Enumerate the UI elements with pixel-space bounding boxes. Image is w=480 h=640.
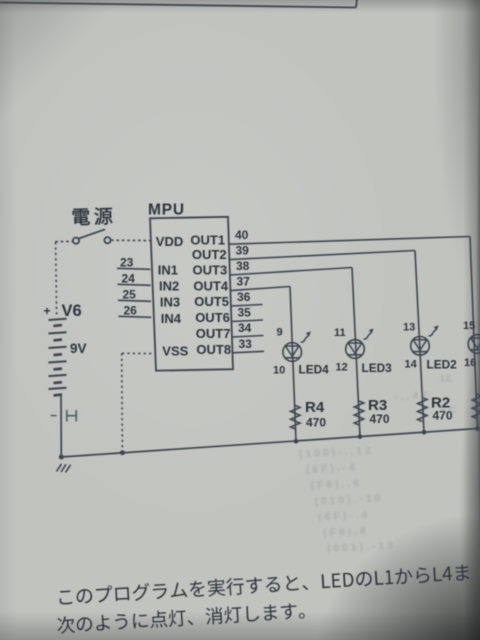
wire column LED1 <box>470 237 478 429</box>
wire pin 38 <box>230 268 352 276</box>
svg-text:LED2: LED2 <box>427 357 458 371</box>
svg-text:12: 12 <box>439 372 451 385</box>
LED LED1 <box>468 335 480 354</box>
wire pin 26 <box>119 316 152 317</box>
wire pin 37 <box>231 287 291 291</box>
label 電源 (power) <box>72 207 112 225</box>
svg-text:( F 6 ) . 6: ( F 6 ) . 6 <box>323 525 366 539</box>
svg-text:OUT7: OUT7 <box>196 326 231 341</box>
svg-text:36: 36 <box>237 290 251 304</box>
LED LED4 <box>283 343 302 362</box>
svg-text:37: 37 <box>237 274 251 288</box>
svg-text:( 6 F ) . - 4: ( 6 F ) . - 4 <box>306 461 356 476</box>
wire column LED4 <box>290 287 296 442</box>
svg-text:LED3: LED3 <box>362 361 393 375</box>
wire pin 24 <box>118 284 151 285</box>
ground bus wire <box>61 429 478 458</box>
svg-text:13: 13 <box>403 322 415 334</box>
svg-text:IN2: IN2 <box>159 278 179 293</box>
svg-text:−: − <box>50 409 57 423</box>
wire dashed battery+ to switch <box>55 240 72 242</box>
wire pin 35 <box>232 320 264 322</box>
svg-text:OUT1: OUT1 <box>190 232 225 247</box>
svg-text:VDD: VDD <box>156 234 183 249</box>
svg-text:26: 26 <box>124 303 138 317</box>
LED LED3 <box>346 340 365 359</box>
wire pin 36 <box>231 305 263 307</box>
negative terminal mark <box>66 410 68 422</box>
battery V6 cells <box>49 319 67 320</box>
wire dashed VSS to ground <box>122 352 156 354</box>
caption line 1 <box>59 563 470 605</box>
svg-text:V6: V6 <box>62 302 82 320</box>
svg-text:25: 25 <box>123 287 137 301</box>
junction dot <box>294 439 299 444</box>
svg-text:OUT5: OUT5 <box>194 294 229 309</box>
svg-text:( F 6 ) . . 6: ( F 6 ) . . 6 <box>310 477 359 492</box>
svg-text:LED4: LED4 <box>299 363 330 377</box>
svg-text:10: 10 <box>273 364 285 376</box>
wire pin 34 <box>232 336 264 338</box>
svg-text:35: 35 <box>238 305 252 319</box>
svg-text:4 C: 4 C <box>440 404 457 417</box>
switch S1 <box>73 238 79 244</box>
svg-text:470: 470 <box>370 412 390 426</box>
svg-text:( 1 0 0 ) - . . 1 2: ( 1 0 0 ) - . . 1 2 <box>299 445 371 461</box>
wire pin 25 <box>118 300 151 301</box>
svg-text:15: 15 <box>463 320 475 332</box>
svg-text:33: 33 <box>239 337 253 351</box>
junction dot <box>358 434 363 439</box>
junction battery/ground bus <box>59 455 64 460</box>
svg-text:OUT3: OUT3 <box>193 263 228 278</box>
svg-text:11: 11 <box>334 327 346 339</box>
svg-text:VSS: VSS <box>162 344 188 359</box>
svg-text:470: 470 <box>306 415 326 429</box>
page show-through (decorative) <box>295 372 464 556</box>
svg-text:MPU: MPU <box>148 202 185 219</box>
svg-text:12: 12 <box>336 361 348 373</box>
svg-text:+: + <box>44 304 51 318</box>
svg-text:IN4: IN4 <box>161 311 182 326</box>
resistor R3 <box>354 401 363 425</box>
svg-text:IN3: IN3 <box>160 295 180 310</box>
MPU U1 box <box>150 217 233 371</box>
LED LED2 <box>411 337 430 356</box>
svg-text:24: 24 <box>122 271 136 285</box>
junction dot <box>422 430 427 435</box>
svg-text:34: 34 <box>238 321 252 335</box>
wire battery- down <box>60 396 62 458</box>
resistor R1 (partial at edge) <box>472 394 480 419</box>
wire pin 23 <box>117 268 150 269</box>
svg-text:39: 39 <box>236 243 250 257</box>
svg-text:16: 16 <box>464 357 476 369</box>
svg-text:OUT6: OUT6 <box>195 310 230 325</box>
wire dashed switch to VDD <box>111 239 151 241</box>
svg-text:- . . 4 E: - . . 4 E <box>394 389 428 403</box>
svg-text:9: 9 <box>277 327 283 339</box>
wire pin 33 <box>233 351 265 353</box>
caption line 2 <box>57 602 305 634</box>
svg-text:( 0 1 0 ) . - 1 0: ( 0 1 0 ) . - 1 0 <box>314 492 381 507</box>
svg-text:38: 38 <box>236 259 250 273</box>
wire column LED3 <box>352 268 360 437</box>
svg-text:R4: R4 <box>305 399 325 416</box>
svg-text:OUT2: OUT2 <box>192 247 227 262</box>
wire column LED2 <box>415 251 424 433</box>
svg-text:9V: 9V <box>70 341 87 356</box>
svg-text:23: 23 <box>120 255 134 269</box>
svg-text:OUT4: OUT4 <box>193 278 228 293</box>
page frame corner (top) <box>0 3 356 8</box>
resistor R2 <box>418 398 427 422</box>
wire pin 39 <box>230 251 416 260</box>
svg-text:OUT8: OUT8 <box>196 342 231 357</box>
junction dot <box>475 426 480 431</box>
svg-text:40: 40 <box>235 228 249 242</box>
ground symbol <box>57 464 62 472</box>
wire pin 40 <box>229 237 470 245</box>
resistor R4 <box>291 406 300 430</box>
svg-text:14: 14 <box>405 358 418 370</box>
svg-text:( 6 F ) - . 4: ( 6 F ) - . 4 <box>318 509 368 524</box>
svg-text:( 0 0 1 ) . - 1 3: ( 0 0 1 ) . - 1 3 <box>327 539 394 554</box>
wire dashed down to battery + <box>56 242 57 315</box>
svg-text:IN1: IN1 <box>158 263 178 278</box>
